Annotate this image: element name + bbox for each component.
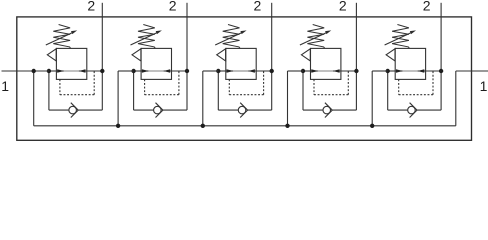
svg-text:2: 2 bbox=[254, 0, 262, 14]
svg-text:1: 1 bbox=[480, 78, 488, 94]
svg-text:2: 2 bbox=[87, 0, 95, 14]
svg-text:2: 2 bbox=[169, 0, 177, 14]
svg-text:1: 1 bbox=[1, 78, 9, 94]
svg-text:2: 2 bbox=[339, 0, 347, 14]
svg-text:2: 2 bbox=[423, 0, 431, 14]
